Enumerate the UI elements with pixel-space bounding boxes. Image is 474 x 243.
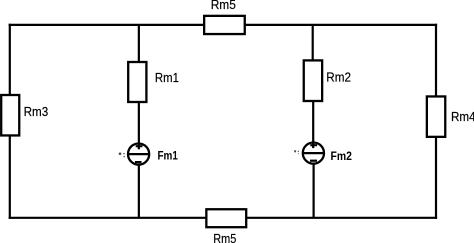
svg-text:Rm1: Rm1	[155, 70, 179, 85]
resistor Rm4	[427, 96, 445, 136]
resistor Rm2	[304, 60, 322, 101]
svg-text:Rm5: Rm5	[213, 231, 236, 243]
wire left lower	[9, 135, 11, 218]
resistor Rm5 (bottom)	[206, 209, 246, 227]
wire branch1 middle (Rm1 to Fm1, continues into circle as plus stem)	[138, 102, 140, 149]
svg-text:Rm3: Rm3	[24, 104, 49, 119]
svg-text:Rm2: Rm2	[326, 70, 351, 85]
wire right lower	[435, 137, 437, 219]
source Fm2 circle body	[303, 143, 324, 164]
wire branch1 top	[138, 25, 140, 62]
wire top-right segment	[245, 24, 437, 26]
wire right upper	[435, 24, 437, 97]
wire branch2 bottom	[313, 164, 315, 218]
wire top-left segment	[9, 24, 205, 26]
tiny mark left of Fm1	[119, 153, 125, 158]
tiny mark left of Fm2	[294, 150, 299, 154]
source Fm1 plus bar	[136, 145, 143, 147]
source Fm2 plus bar	[310, 144, 317, 146]
source Fm1 minus bar	[135, 161, 142, 163]
svg-text:Rm4: Rm4	[451, 109, 474, 124]
wire bottom-right segment	[246, 217, 437, 219]
source Fm2 mid-line	[302, 152, 325, 154]
wire branch1 bottom	[138, 165, 140, 217]
resistor Rm5 (top)	[204, 16, 245, 34]
svg-text:Fm2: Fm2	[331, 149, 353, 163]
svg-text:Rm5: Rm5	[211, 0, 236, 12]
wire left upper	[9, 24, 11, 95]
wire branch2 middle (Rm2 to Fm2, continues into circle as plus stem)	[312, 101, 314, 148]
source Fm2 minus bar	[310, 160, 317, 162]
source Fm1 circle body	[128, 144, 149, 165]
source Fm1 mid-line	[127, 153, 150, 155]
svg-text:Fm1: Fm1	[158, 149, 179, 163]
wire branch2 top	[312, 25, 314, 61]
resistor Rm1	[128, 62, 146, 102]
resistor Rm3	[1, 95, 19, 135]
wire bottom-left segment	[9, 217, 207, 219]
